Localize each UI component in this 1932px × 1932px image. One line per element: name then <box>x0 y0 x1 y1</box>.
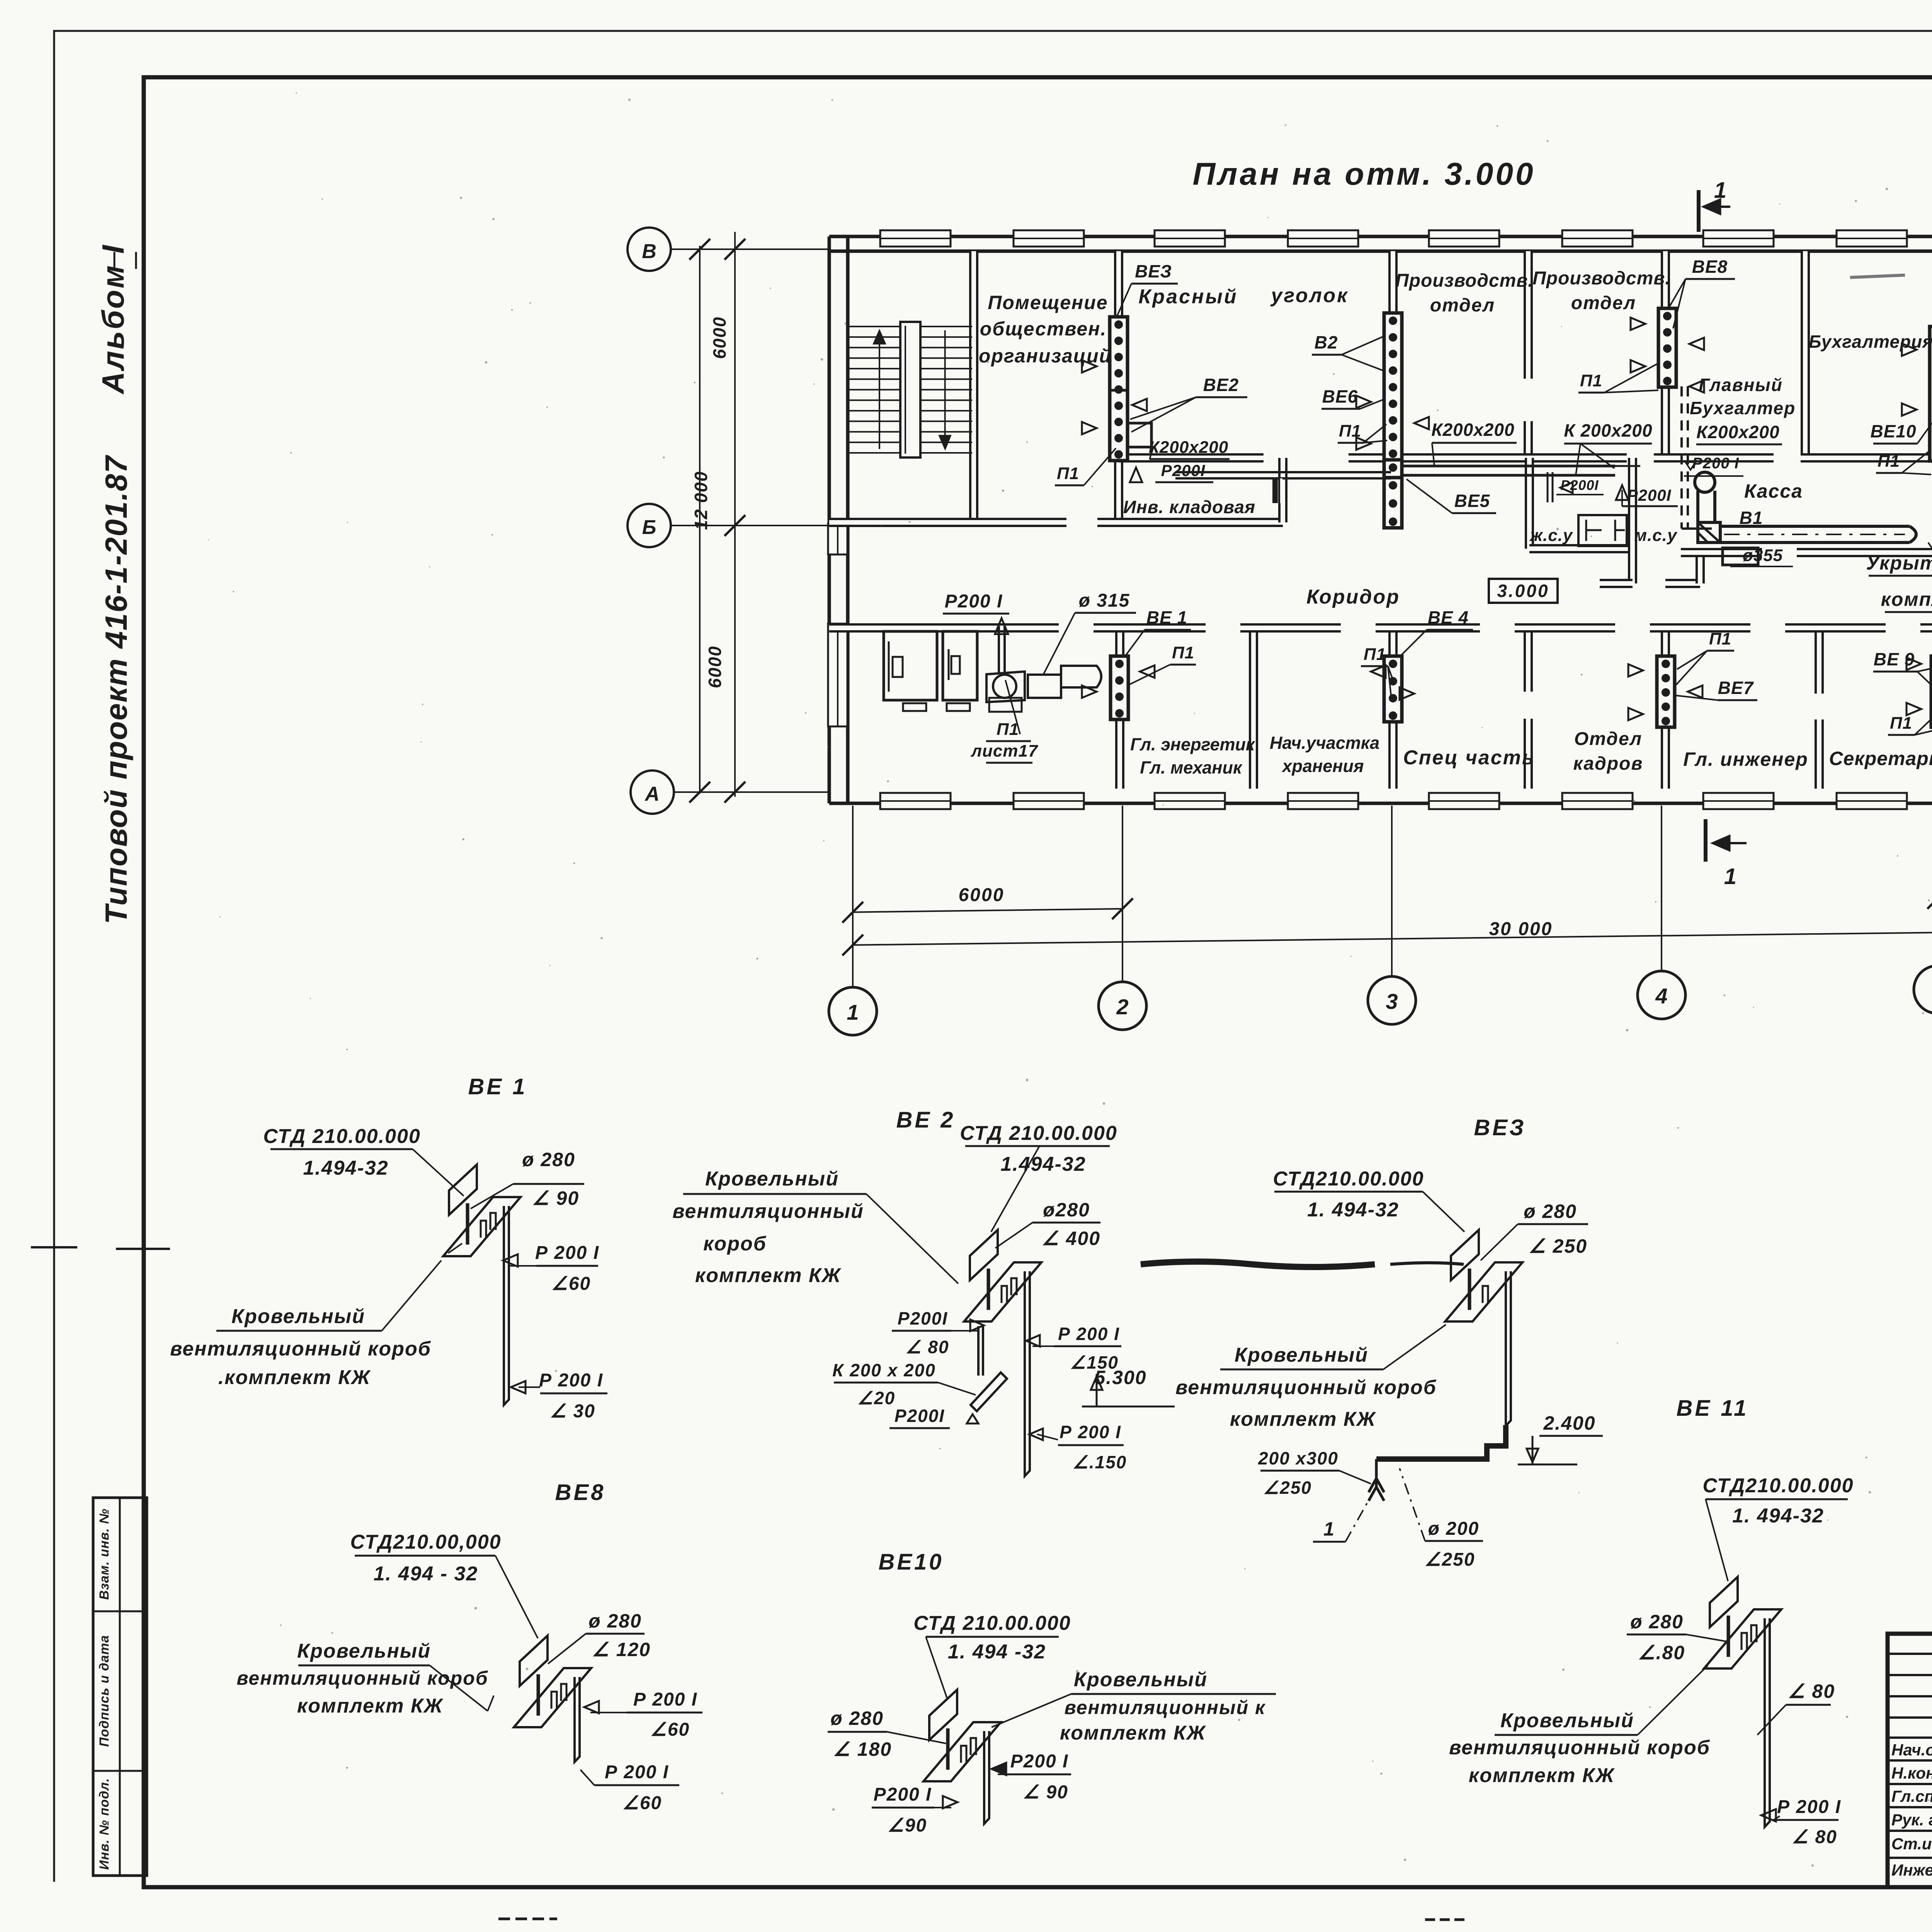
partition гл.инженер / секретарь <box>1815 628 1824 694</box>
building exterior walls <box>829 235 1932 238</box>
svg-text:Р200I: Р200I <box>1161 461 1206 480</box>
санузлы ж.с.у / м.с.у <box>1525 458 1534 549</box>
svg-text:комплект КЖ: комплект КЖ <box>695 1264 842 1287</box>
svg-text:СТД210.00.000: СТД210.00.000 <box>1273 1168 1424 1190</box>
svg-text:Производств.: Производств. <box>1532 268 1670 289</box>
svg-text:К 200х200: К 200х200 <box>1564 420 1652 440</box>
svg-text:Р200 I: Р200 I <box>1692 455 1739 472</box>
svg-text:Р200I: Р200I <box>1627 486 1672 504</box>
вентблок ВЕ9 <box>1931 656 1932 727</box>
svg-text:вентиляционный к: вентиляционный к <box>1065 1697 1266 1718</box>
svg-text:П1: П1 <box>1580 371 1602 390</box>
svg-text:Р200 I: Р200 I <box>945 591 1003 612</box>
svg-text:Кровельный: Кровельный <box>705 1168 839 1190</box>
svg-text:комплект КЖ: комплект КЖ <box>1230 1408 1376 1430</box>
svg-text:6000: 6000 <box>705 646 725 688</box>
wall column 3 lower (вентблок ВЕ4) <box>1388 628 1398 789</box>
windows left wall <box>828 524 847 554</box>
svg-text:В: В <box>642 240 656 263</box>
svg-text:ВЕ10: ВЕ10 <box>1870 421 1916 441</box>
svg-text:К200х200: К200х200 <box>1696 422 1779 442</box>
svg-text:П1: П1 <box>1339 422 1361 440</box>
svg-text:Кровельный: Кровельный <box>297 1640 431 1662</box>
svg-text:В1: В1 <box>1740 508 1763 528</box>
wall column 2 lower (вентблок ВЕ1) <box>1115 628 1124 789</box>
svg-text:2.400: 2.400 <box>1543 1412 1595 1434</box>
стояк Р200 возле П1 <box>998 626 1000 674</box>
svg-text:Типовой проект 416-1-201.87: Типовой проект 416-1-201.87 <box>99 455 133 924</box>
svg-text:Кровельный: Кровельный <box>1235 1344 1368 1366</box>
bottom dimension lines <box>853 909 1122 912</box>
svg-text:кадров: кадров <box>1573 753 1643 774</box>
svg-text:вентиляционный короб: вентиляционный короб <box>236 1667 488 1689</box>
svg-text:ВЕ6: ВЕ6 <box>1322 386 1358 406</box>
воздуховод ВЕ3 низ <box>1376 1425 1506 1459</box>
wall column 2 upper (вентблок ВЕ2/ВЕ3) <box>1114 251 1123 522</box>
svg-text:ø 200: ø 200 <box>1428 1519 1480 1539</box>
svg-text:короб: короб <box>703 1233 767 1255</box>
svg-text:Р 200 I: Р 200 I <box>633 1689 697 1710</box>
svg-text:Укрытие воздуховода: Укрытие воздуховода <box>1866 552 1932 574</box>
svg-text:Отдел: Отдел <box>1574 729 1642 749</box>
svg-text:лист17: лист17 <box>971 742 1039 760</box>
вентблок ВЕ11/ВЕ10 (колонна 5) <box>1930 327 1932 461</box>
svg-text:Р200I: Р200I <box>898 1308 948 1328</box>
вентблок ВЕ3/ВЕ2 (колонна 2) <box>1110 317 1128 461</box>
axis columns 1-6 <box>829 987 877 1035</box>
section mark 1 (top) <box>1697 190 1701 232</box>
svg-text:Нач.отд.: Нач.отд. <box>1891 1741 1932 1759</box>
svg-text:ø 315: ø 315 <box>1079 590 1130 611</box>
svg-text:2: 2 <box>1116 995 1128 1019</box>
svg-text:П1: П1 <box>1878 452 1900 471</box>
svg-text:П1: П1 <box>1172 643 1194 662</box>
svg-text:Кровельный: Кровельный <box>1500 1709 1634 1732</box>
svg-text:Инв. кладовая: Инв. кладовая <box>1123 497 1255 517</box>
svg-text:∠ 120: ∠ 120 <box>592 1639 651 1660</box>
svg-text:Рук. гр.: Рук. гр. <box>1891 1811 1932 1829</box>
svg-text:ВЕ10: ВЕ10 <box>878 1549 944 1575</box>
svg-text:комплект КЖ: комплект КЖ <box>297 1695 444 1717</box>
svg-text:П1: П1 <box>1890 714 1912 733</box>
svg-text:Б: Б <box>642 516 656 539</box>
svg-text:Р 200 I: Р 200 I <box>605 1762 669 1782</box>
svg-text:В2: В2 <box>1315 332 1338 352</box>
svg-text:ВЕ 1: ВЕ 1 <box>1146 607 1187 628</box>
svg-text:П1: П1 <box>1057 464 1079 483</box>
вентилятор и воздуховод ø315 <box>986 672 1025 702</box>
svg-text:П1: П1 <box>1364 645 1386 664</box>
section mark 1 (bottom) <box>1704 819 1708 862</box>
windows top wall <box>880 230 951 247</box>
svg-text:ж.с.у: ж.с.у <box>1529 526 1573 545</box>
вентблок ВЕ1 <box>1111 656 1128 719</box>
svg-text:3.000: 3.000 <box>1497 581 1549 601</box>
svg-text:∠60: ∠60 <box>650 1719 690 1740</box>
svg-text:1: 1 <box>1714 178 1726 203</box>
svg-text:Гл. инженер: Гл. инженер <box>1683 748 1808 770</box>
svg-text:Р200 I: Р200 I <box>1010 1751 1069 1772</box>
вентблок В2/ВЕ6/ВЕ5 (колонна 3) <box>1384 313 1402 460</box>
svg-text:6000: 6000 <box>959 885 1005 905</box>
стена кладовой север <box>1175 471 1391 473</box>
svg-text:ø 280: ø 280 <box>1524 1201 1577 1222</box>
svg-text:ВЕ8: ВЕ8 <box>555 1480 606 1505</box>
svg-text:Секретарь: Секретарь <box>1829 748 1932 769</box>
svg-text:СТД 210.00.000: СТД 210.00.000 <box>913 1612 1071 1634</box>
кладовая wall (y=1352) <box>829 518 1066 527</box>
svg-text:∠ 400: ∠ 400 <box>1042 1228 1100 1249</box>
svg-text:∠ 90: ∠ 90 <box>1023 1782 1068 1803</box>
svg-text:ø 280: ø 280 <box>522 1149 575 1170</box>
воздуховод В1 ø355 (касса) <box>1695 472 1715 492</box>
stairs left <box>849 326 972 327</box>
svg-text:ø 280: ø 280 <box>830 1708 884 1729</box>
воздуховод К200х200 у ВЕ2 <box>1128 423 1151 447</box>
svg-text:комплект КЖ: комплект КЖ <box>1060 1722 1206 1744</box>
svg-text:Нач.участка: Нач.участка <box>1270 733 1379 753</box>
svg-text:1. 494-32: 1. 494-32 <box>1307 1199 1399 1221</box>
svg-text:Гл. механик: Гл. механик <box>1140 758 1243 777</box>
svg-text:ВЕ5: ВЕ5 <box>1454 491 1490 511</box>
svg-text:ВЕ 9: ВЕ 9 <box>1874 649 1915 669</box>
svg-text:уголок: уголок <box>1270 284 1349 307</box>
касса south wall <box>1681 548 1762 557</box>
wall column 3 upper (вентблок В2/ВЕ6/ВЕ5) <box>1388 251 1398 458</box>
svg-text:Ст.инж.: Ст.инж. <box>1891 1835 1932 1853</box>
corridor wall south (y=1625) <box>829 623 1059 633</box>
wall column 4 upper (вентблок ВЕ8) <box>1661 251 1670 458</box>
svg-text:∠90: ∠90 <box>888 1815 927 1836</box>
svg-text:П1: П1 <box>1709 629 1731 648</box>
svg-text:∠60: ∠60 <box>622 1793 662 1813</box>
partition between производств. отделы <box>1524 251 1533 379</box>
svg-text:обществен.: обществен. <box>980 318 1107 340</box>
svg-text:1. 494 - 32: 1. 494 - 32 <box>374 1563 478 1585</box>
svg-text:СТД 210.00.000: СТД 210.00.000 <box>263 1125 421 1148</box>
svg-text:Бухгалтер: Бухгалтер <box>1690 398 1796 418</box>
svg-text:∠ 90: ∠ 90 <box>532 1187 579 1209</box>
svg-text:4: 4 <box>1655 984 1667 1008</box>
vertical dimension lines <box>734 232 736 797</box>
arrow marks at vent blocks <box>1082 360 1097 372</box>
axis row Б <box>628 504 671 547</box>
axis row А <box>631 770 674 814</box>
svg-text:К200х200: К200х200 <box>1431 420 1514 440</box>
svg-text:План на отм. 3.000: План на отм. 3.000 <box>1192 156 1535 192</box>
svg-text:отдел: отдел <box>1430 295 1495 316</box>
svg-text:∠ 80: ∠ 80 <box>1788 1680 1835 1702</box>
svg-text:.комплект КЖ: .комплект КЖ <box>218 1366 371 1389</box>
wall бухгалтерия <box>1801 251 1810 458</box>
svg-text:1: 1 <box>1323 1518 1335 1540</box>
svg-text:ø 280: ø 280 <box>1630 1611 1684 1633</box>
svg-text:Красный: Красный <box>1138 286 1238 308</box>
svg-text:∠ 80: ∠ 80 <box>905 1337 949 1357</box>
svg-text:1: 1 <box>847 1000 859 1024</box>
axis row В <box>628 228 671 271</box>
svg-text:вентиляционный короб: вентиляционный короб <box>1175 1376 1437 1399</box>
svg-text:К 200 х 200: К 200 х 200 <box>832 1360 936 1380</box>
svg-text:Спец часть: Спец часть <box>1403 747 1535 769</box>
воздуховод к бухгалтеру (пунктир) <box>1680 386 1683 529</box>
svg-text:5.300: 5.300 <box>1094 1367 1146 1388</box>
svg-text:∠ 250: ∠ 250 <box>1529 1235 1587 1257</box>
svg-text:комплект АР: комплект АР <box>1881 588 1932 610</box>
svg-text:Р 200 I: Р 200 I <box>1058 1324 1120 1344</box>
svg-text:Подпись и дата: Подпись и дата <box>97 1635 112 1747</box>
svg-text:30 000: 30 000 <box>1489 919 1553 939</box>
svg-text:Р 200 I: Р 200 I <box>1060 1422 1121 1442</box>
svg-text:3: 3 <box>1386 989 1398 1014</box>
svg-text:ВЕ 11: ВЕ 11 <box>1677 1396 1749 1421</box>
svg-text:∠250: ∠250 <box>1263 1478 1312 1498</box>
svg-text:ВЕ 2: ВЕ 2 <box>896 1107 956 1133</box>
svg-text:ВЕ8: ВЕ8 <box>1692 257 1728 277</box>
svg-text:Кровельный: Кровельный <box>1074 1668 1207 1691</box>
svg-text:ø 280: ø 280 <box>588 1610 642 1632</box>
corridor wall north (y=1185) <box>1119 453 1264 463</box>
svg-text:Касса: Касса <box>1744 480 1803 502</box>
svg-text:∠250: ∠250 <box>1424 1549 1475 1570</box>
svg-text:СТД210.00,000: СТД210.00,000 <box>350 1531 501 1553</box>
svg-text:ø355: ø355 <box>1743 546 1783 565</box>
svg-text:Р200 I: Р200 I <box>874 1784 932 1805</box>
svg-text:ВЕ7: ВЕ7 <box>1718 678 1754 698</box>
svg-text:комплект КЖ: комплект КЖ <box>1469 1764 1615 1787</box>
svg-text:∠.80: ∠.80 <box>1638 1642 1685 1663</box>
svg-text:Инв. № подл.: Инв. № подл. <box>97 1778 112 1870</box>
svg-text:∠20: ∠20 <box>857 1388 895 1408</box>
отметка 3.000 <box>1489 579 1558 603</box>
чернильное пятно <box>1141 1262 1375 1267</box>
svg-text:1. 494-32: 1. 494-32 <box>1732 1505 1824 1527</box>
svg-text:вентиляционный: вентиляционный <box>672 1200 864 1223</box>
svg-text:ВЕЗ: ВЕЗ <box>1135 261 1172 281</box>
fold mark left <box>31 1246 77 1248</box>
svg-text:вентиляционный короб: вентиляционный короб <box>170 1338 431 1360</box>
partition отдел кадров / спецчасть <box>1524 628 1533 692</box>
svg-text:Производств.: Производств. <box>1395 270 1533 291</box>
svg-text:Альбом I: Альбом I <box>96 243 130 395</box>
svg-text:ВЕ 1: ВЕ 1 <box>468 1074 527 1099</box>
svg-text:∠.150: ∠.150 <box>1073 1452 1127 1472</box>
svg-text:К200х200: К200х200 <box>1149 438 1228 457</box>
svg-text:200 х300: 200 х300 <box>1258 1448 1338 1468</box>
svg-text:∠60: ∠60 <box>551 1274 591 1294</box>
svg-text:м.с.у: м.с.у <box>1634 526 1678 545</box>
svg-text:1.494-32: 1.494-32 <box>303 1157 388 1179</box>
svg-text:ВЕ 4: ВЕ 4 <box>1428 607 1469 628</box>
вентблок ВЕ8 <box>1658 308 1676 387</box>
svg-text:Р 200 I: Р 200 I <box>539 1370 603 1391</box>
svg-text:П1: П1 <box>997 720 1019 739</box>
svg-text:Р200I: Р200I <box>895 1406 945 1426</box>
svg-text:Гл.спец.: Гл.спец. <box>1891 1787 1932 1805</box>
svg-text:Р 200 I: Р 200 I <box>535 1243 599 1263</box>
margin stamp column <box>93 1498 147 1876</box>
основная надпись (штамп) <box>1888 1634 1932 1887</box>
svg-text:1.494-32: 1.494-32 <box>1000 1153 1086 1175</box>
svg-text:Помещение: Помещение <box>988 292 1108 313</box>
вентблок ВЕ4 <box>1384 656 1402 722</box>
partition гл.энергетик / нач.участка <box>1249 628 1258 789</box>
svg-text:Гл. энергетик: Гл. энергетик <box>1130 735 1255 754</box>
svg-text:СТД 210.00.000: СТД 210.00.000 <box>960 1122 1117 1145</box>
svg-text:Главный: Главный <box>1699 375 1783 395</box>
svg-text:12 000: 12 000 <box>691 471 711 530</box>
svg-text:СТД210.00.000: СТД210.00.000 <box>1702 1475 1854 1497</box>
stairwell left wall <box>969 251 978 520</box>
svg-text:А: А <box>644 783 660 805</box>
svg-text:Н.контр.: Н.контр. <box>1891 1764 1932 1782</box>
svg-text:организаций: организаций <box>979 345 1112 367</box>
svg-text:∠ 30: ∠ 30 <box>550 1401 595 1422</box>
svg-text:∠ 80: ∠ 80 <box>1792 1827 1837 1847</box>
svg-text:Коридор: Коридор <box>1306 586 1400 608</box>
пятна внизу листа <box>498 1918 557 1920</box>
svg-text:ВЕ2: ВЕ2 <box>1203 375 1239 395</box>
вентблок ВЕ7 <box>1657 656 1675 727</box>
svg-text:Бухгалтерия: Бухгалтерия <box>1809 332 1932 352</box>
svg-text:Кровельный: Кровельный <box>231 1305 365 1328</box>
svg-text:Р 200 I: Р 200 I <box>1777 1797 1841 1817</box>
svg-text:Инженер: Инженер <box>1891 1861 1932 1879</box>
svg-text:∠ 180: ∠ 180 <box>833 1738 892 1760</box>
svg-text:Взам. инв. №: Взам. инв. № <box>97 1509 112 1600</box>
приточная установка П1 (венткамера) <box>884 631 937 700</box>
svg-text:хранения: хранения <box>1282 756 1364 776</box>
windows bottom wall <box>880 793 951 809</box>
svg-text:вентиляционный короб: вентиляционный короб <box>1449 1736 1710 1759</box>
svg-text:ВЕЗ: ВЕЗ <box>1474 1115 1526 1140</box>
svg-text:1: 1 <box>1724 864 1736 889</box>
svg-text:6000: 6000 <box>709 316 730 359</box>
svg-text:отдел: отдел <box>1571 293 1636 313</box>
svg-text:1. 494 -32: 1. 494 -32 <box>948 1641 1046 1663</box>
wall column 4 lower (вентблок ВЕ7) <box>1661 628 1670 789</box>
воздуховод К200х200 коридор <box>1402 465 1615 468</box>
svg-text:ø280: ø280 <box>1043 1199 1090 1221</box>
